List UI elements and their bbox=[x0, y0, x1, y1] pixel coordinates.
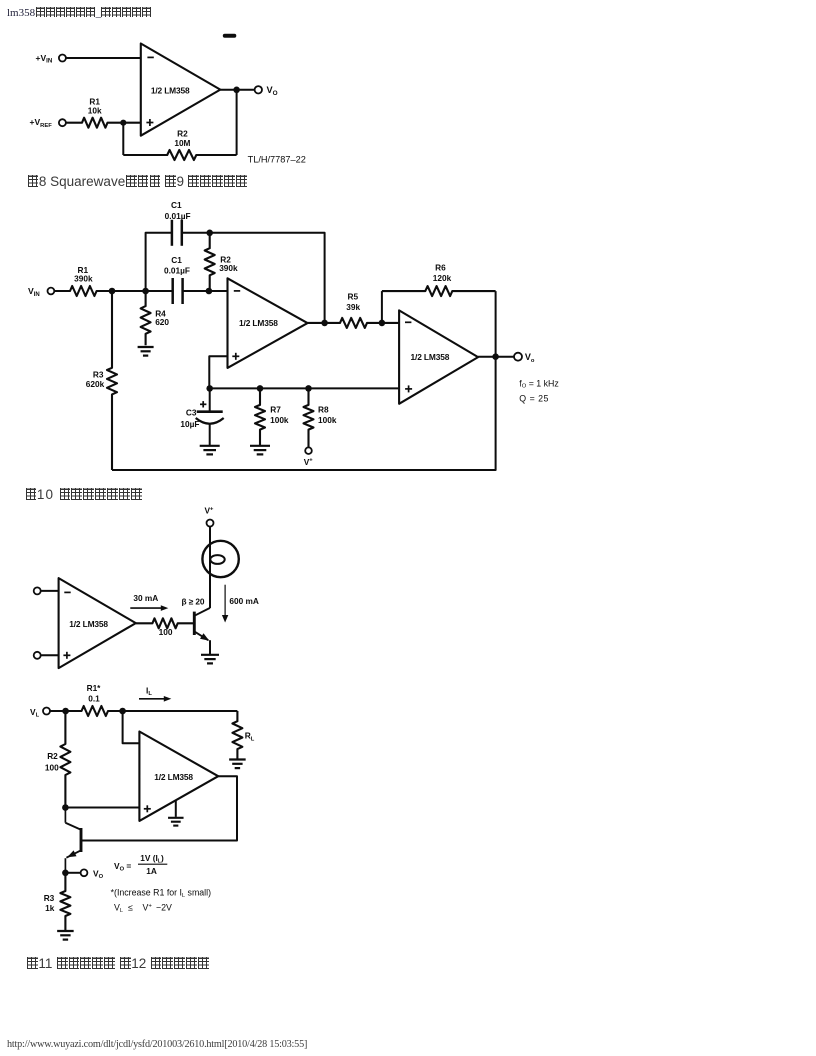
svg-text:10k: 10k bbox=[88, 105, 102, 115]
svg-text:RL: RL bbox=[245, 731, 255, 743]
svg-text:R7: R7 bbox=[270, 405, 281, 415]
svg-text:1/2 LM358: 1/2 LM358 bbox=[69, 619, 108, 629]
svg-text:+VREF: +VREF bbox=[30, 117, 53, 129]
svg-text:VO =: VO = bbox=[114, 861, 131, 873]
svg-text:V+: V+ bbox=[143, 902, 153, 912]
svg-text:10µF: 10µF bbox=[180, 419, 199, 429]
svg-text:620k: 620k bbox=[86, 379, 105, 389]
svg-text:1/2 LM358: 1/2 LM358 bbox=[151, 85, 190, 95]
svg-text:120k: 120k bbox=[433, 273, 452, 283]
svg-text:Vo: Vo bbox=[525, 352, 535, 364]
svg-text:30 mA: 30 mA bbox=[133, 593, 158, 603]
svg-text:β ≥ 20: β ≥ 20 bbox=[182, 596, 205, 606]
svg-text:C3: C3 bbox=[186, 407, 197, 417]
svg-text:VIN: VIN bbox=[28, 286, 40, 298]
svg-text:39k: 39k bbox=[346, 302, 360, 312]
svg-text:R5: R5 bbox=[347, 292, 358, 302]
svg-text:390k: 390k bbox=[74, 274, 93, 284]
svg-text:390k: 390k bbox=[219, 263, 238, 273]
svg-text:V+: V+ bbox=[304, 457, 314, 467]
svg-text:100k: 100k bbox=[270, 415, 289, 425]
svg-text:10M: 10M bbox=[174, 138, 190, 148]
svg-text:R1*: R1* bbox=[87, 683, 102, 693]
svg-text:Q = 25: Q = 25 bbox=[519, 394, 549, 404]
svg-text:R6: R6 bbox=[435, 262, 446, 272]
svg-text:0.01µF: 0.01µF bbox=[165, 211, 191, 221]
svg-text:1A: 1A bbox=[146, 866, 157, 876]
svg-text:C1: C1 bbox=[171, 255, 182, 265]
svg-text:−2V: −2V bbox=[156, 902, 172, 912]
svg-text:+VIN: +VIN bbox=[36, 53, 53, 65]
svg-text:fO = 1 kHz: fO = 1 kHz bbox=[519, 378, 558, 389]
svg-text:0.01µF: 0.01µF bbox=[164, 266, 190, 276]
svg-text:V+: V+ bbox=[205, 506, 215, 516]
svg-text:1/2 LM358: 1/2 LM358 bbox=[154, 772, 193, 782]
svg-text:≤: ≤ bbox=[128, 902, 133, 912]
svg-text:100: 100 bbox=[45, 762, 59, 772]
svg-text:TL/H/7787–22: TL/H/7787–22 bbox=[248, 154, 306, 164]
svg-text:1k: 1k bbox=[45, 903, 55, 913]
svg-text:VO: VO bbox=[267, 85, 278, 97]
svg-text:VL: VL bbox=[30, 707, 40, 719]
svg-text:620: 620 bbox=[155, 317, 169, 327]
svg-text:1/2 LM358: 1/2 LM358 bbox=[411, 352, 450, 362]
svg-text:VO: VO bbox=[93, 868, 104, 880]
svg-text:1/2 LM358: 1/2 LM358 bbox=[239, 318, 278, 328]
svg-text:R2: R2 bbox=[47, 751, 58, 761]
svg-text:C1: C1 bbox=[171, 200, 182, 210]
svg-text:IL: IL bbox=[146, 685, 152, 697]
svg-text:VL: VL bbox=[114, 902, 123, 914]
svg-text:0.1: 0.1 bbox=[88, 693, 100, 703]
svg-text:600 mA: 600 mA bbox=[229, 596, 259, 606]
svg-text:R3: R3 bbox=[44, 893, 55, 903]
svg-text:1V (IL): 1V (IL) bbox=[140, 853, 164, 864]
svg-text:*(Increase R1 for IL small): *(Increase R1 for IL small) bbox=[111, 887, 211, 899]
svg-text:100: 100 bbox=[159, 627, 173, 637]
svg-text:R3: R3 bbox=[93, 369, 104, 379]
svg-text:R8: R8 bbox=[318, 405, 329, 415]
svg-text:100k: 100k bbox=[318, 415, 337, 425]
